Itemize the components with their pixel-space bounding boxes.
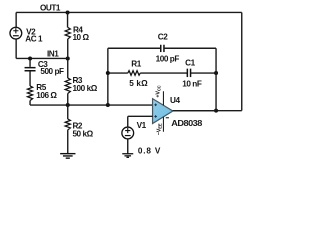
svg-text:10 nF: 10 nF: [182, 80, 202, 89]
wire inverting-input rail: [30, 104, 153, 106]
node feedback-left junction dot: [106, 103, 110, 107]
wire outer right side: [241, 12, 243, 110]
resistor R2: [65, 105, 70, 153]
wire OUT1 top rail: [16, 11, 242, 13]
svg-text:C2: C2: [158, 32, 168, 41]
resistor R3: [65, 58, 70, 105]
wire feedback-loop left vertical: [107, 48, 109, 105]
pin minus mark (inverting input): [154, 104, 157, 107]
node output junction dot: [214, 109, 218, 113]
supply stub -Vee: [162, 117, 164, 132]
svg-text:100 kΩ: 100 kΩ: [72, 84, 97, 93]
ground under V1: [122, 154, 133, 158]
wire V2 top lead: [15, 12, 17, 27]
svg-text:−VEE: −VEE: [156, 123, 162, 135]
svg-text:V1: V1: [137, 121, 147, 130]
pin minus mark near output: [166, 117, 169, 119]
wire V1 bottom lead: [127, 139, 129, 154]
wire R1 to C1: [140, 72, 187, 74]
svg-text:R1: R1: [131, 60, 141, 69]
supply stub +Vcc: [162, 91, 164, 105]
node R1-row left junction dot: [106, 71, 110, 75]
svg-text:500 pF: 500 pF: [40, 67, 64, 76]
svg-text:10 Ω: 10 Ω: [72, 33, 89, 42]
node C3 junction dot: [28, 56, 32, 60]
wire R1 row left: [108, 72, 128, 74]
wire IN1 rail: [16, 57, 68, 59]
node OUT1 junction dot: [66, 10, 70, 14]
op-amp U4: [153, 91, 173, 132]
svg-text:C1: C1: [185, 59, 195, 68]
node R1-row right junction dot: [214, 71, 218, 75]
svg-text:100 pF: 100 pF: [156, 55, 180, 64]
node R2 junction dot: [66, 103, 70, 107]
source V2: [10, 27, 22, 39]
svg-text:OUT1: OUT1: [40, 4, 61, 13]
wire feedback-loop right vertical: [215, 48, 217, 110]
wire output row: [172, 110, 241, 112]
svg-text:50 kΩ: 50 kΩ: [72, 129, 93, 138]
node IN1 junction dot: [66, 56, 70, 60]
resistor R5: [27, 86, 32, 105]
svg-text:AD8038: AD8038: [171, 119, 203, 128]
pin plus mark (non-inverting input): [154, 115, 157, 118]
svg-text:U4: U4: [170, 96, 180, 105]
resistor R1: [128, 71, 140, 76]
capacitor C3: [25, 58, 36, 85]
svg-text:5 kΩ: 5 kΩ: [129, 79, 148, 88]
svg-text:106 Ω: 106 Ω: [36, 91, 57, 100]
capacitor C2: [161, 45, 216, 52]
svg-text:0.8 V: 0.8 V: [138, 146, 161, 155]
capacitor C1: [187, 69, 216, 77]
svg-text:+VCC: +VCC: [155, 85, 161, 97]
wire feedback-loop top rail: [108, 47, 161, 49]
source V1: [122, 127, 134, 139]
ground under R2: [60, 154, 75, 159]
resistor R4: [65, 12, 70, 58]
wire non-inverting input: [128, 116, 153, 127]
wire V2 bottom lead: [15, 39, 17, 58]
svg-text:AC 1: AC 1: [25, 35, 43, 44]
wire op-amp output: [173, 110, 216, 112]
svg-text:IN1: IN1: [47, 49, 59, 58]
